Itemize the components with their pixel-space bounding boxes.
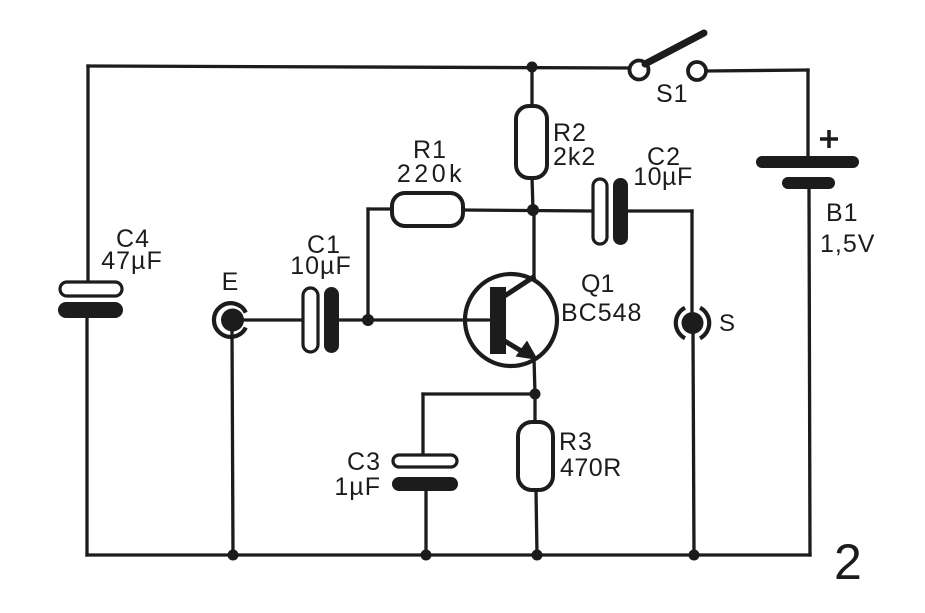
resistor R1 [392, 193, 463, 226]
wire left vertical (top rail to C4) [86, 66, 89, 281]
svg-text:C3: C3 [347, 448, 381, 476]
wire top rail right segment (switch to battery) [706, 70, 808, 71]
wire top rail left segment [88, 66, 630, 68]
wire E terminal to C1 [243, 318, 303, 321]
resistor R3 [518, 422, 553, 490]
wire R2 bottom lead [532, 177, 533, 210]
node junction top rail [527, 62, 538, 73]
capacitor C2 [593, 179, 607, 244]
svg-text:E: E [222, 268, 239, 296]
wire C1 to transistor base [339, 318, 492, 321]
terminal E [214, 303, 246, 337]
svg-text:B1: B1 [826, 199, 859, 227]
svg-text:S1: S1 [656, 80, 689, 108]
node junction ground E branch [228, 550, 239, 561]
resistor R2 [516, 106, 547, 178]
node junction ground S branch [689, 550, 700, 561]
svg-text:R3: R3 [559, 428, 593, 456]
svg-text:BC548: BC548 [561, 299, 642, 327]
svg-text:S: S [719, 310, 735, 337]
wire R1 right lead to collector node and C2 [463, 210, 592, 211]
node junction collector node [527, 204, 539, 216]
wire R2 top lead [530, 67, 533, 106]
capacitor C1 [303, 288, 318, 352]
wire R3 bottom lead [536, 490, 537, 555]
battery plus sign [820, 130, 838, 148]
svg-text:2: 2 [834, 534, 862, 590]
node junction emitter node [530, 389, 541, 400]
capacitor C4 [60, 282, 122, 296]
wire C3 branch horizontal [423, 392, 535, 395]
node junction ground R3 branch [532, 550, 543, 561]
wire collector vertical [532, 210, 535, 278]
wire battery bottom to ground rail corner [809, 188, 810, 555]
wire bottom ground rail [87, 553, 810, 556]
wire S terminal down to ground rail [693, 333, 694, 555]
svg-text:470R: 470R [560, 454, 622, 482]
wire emitter node to R3 [533, 394, 536, 422]
wire battery top lead [806, 70, 809, 156]
wire C3 branch vertical down to plate [421, 394, 424, 456]
svg-text:Q1: Q1 [581, 270, 614, 298]
terminal S [676, 308, 709, 339]
svg-text:1µF: 1µF [334, 473, 381, 501]
wire C4 bottom to ground rail [85, 318, 88, 555]
capacitor C3 [393, 455, 457, 467]
battery B1 [756, 156, 859, 168]
wire E terminal down to ground rail [232, 331, 233, 555]
svg-text:47µF: 47µF [101, 247, 162, 275]
node junction ground C3 branch [421, 550, 432, 561]
wire R1 left lead vertical down to base node [366, 209, 369, 320]
wire C3 bottom to ground rail [424, 490, 427, 555]
switch S1 [630, 61, 649, 80]
svg-text:2k2: 2k2 [553, 143, 596, 171]
wire emitter vertical to node [534, 358, 535, 394]
svg-text:10µF: 10µF [290, 252, 351, 280]
transistor Q1 [465, 274, 557, 366]
svg-text:1,5V: 1,5V [820, 230, 875, 258]
svg-text:220k: 220k [397, 160, 465, 188]
wire R1 left lead horizontal [368, 207, 392, 210]
wire C2 right to corner [628, 209, 692, 212]
node junction base node [362, 314, 374, 326]
wire corner down to S terminal [690, 211, 693, 313]
svg-text:10µF: 10µF [633, 163, 692, 191]
